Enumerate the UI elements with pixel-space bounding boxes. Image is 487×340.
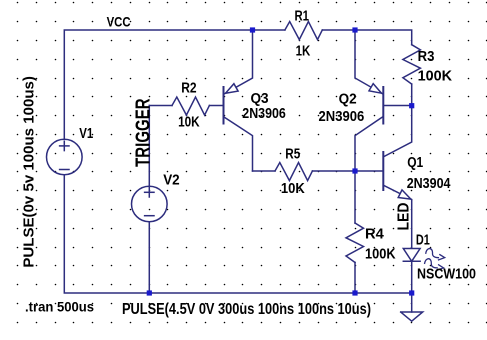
transistor Q2 collector	[355, 117, 383, 171]
wire R2 to Q3 base	[209, 105, 222, 107]
svg-text:VCC: VCC	[107, 14, 131, 30]
transistor Q1 collector	[384, 106, 412, 157]
svg-text:R2: R2	[181, 81, 196, 97]
transistor Q1 emitter	[384, 186, 412, 249]
wire LED to bus junction	[411, 261, 413, 293]
svg-text:D1: D1	[416, 232, 430, 248]
svg-text:R1: R1	[295, 8, 310, 24]
transistor Q2 emitter arrow	[369, 84, 382, 94]
wire V2 bottom to bus	[148, 222, 150, 293]
svg-text:PULSE(4.5V 0V 300us 100ns 100n: PULSE(4.5V 0V 300us 100ns 100ns 10us)	[122, 301, 371, 318]
svg-text:10K: 10K	[281, 181, 305, 197]
ground symbol	[401, 312, 423, 321]
svg-text:Q2: Q2	[339, 92, 357, 108]
svg-text:2N3904: 2N3904	[407, 176, 451, 192]
svg-text:LED: LED	[395, 203, 412, 231]
svg-text:TRIGGER: TRIGGER	[133, 98, 155, 167]
wire trigger to R2	[149, 105, 172, 107]
LED light squiggle upper	[426, 249, 439, 258]
svg-text:R3: R3	[418, 49, 435, 65]
wire R3 bottom to node	[411, 84, 413, 106]
svg-text:R4: R4	[365, 227, 384, 243]
svg-text:Q3: Q3	[251, 91, 269, 107]
junction Q2 base / R3 / Q1 collector	[409, 103, 414, 108]
transistor Q2 body	[382, 87, 384, 124]
wire trigger corner to V2 top	[148, 106, 150, 187]
junction V2 bottom / bus	[147, 290, 152, 295]
LED D1 triangle	[403, 249, 420, 262]
transistor Q3 emitter arrow	[226, 84, 239, 94]
transistor Q3 body	[223, 87, 225, 124]
wire Q3 collector to R5	[253, 170, 276, 172]
resistor R2	[172, 97, 209, 115]
transistor Q2 base wire	[383, 105, 411, 107]
resistor R4 bottom lead	[354, 262, 356, 293]
svg-text:NSCW100: NSCW100	[417, 267, 476, 283]
resistor R5	[275, 163, 312, 181]
junction Q2 emitter / VCC	[352, 27, 357, 32]
wire R5 to node	[312, 170, 355, 172]
svg-text:R5: R5	[285, 147, 300, 163]
transistor Q1 body	[382, 152, 384, 190]
resistor R4	[346, 223, 364, 262]
voltage source V1	[47, 139, 83, 175]
resistor R3	[403, 45, 421, 84]
svg-text:10K: 10K	[178, 115, 200, 131]
wire V1 bottom to ground bus	[64, 175, 411, 293]
transistor Q1 emitter arrow	[398, 190, 411, 199]
wire node to Q1 base	[355, 170, 383, 172]
wire bus junction to ground	[411, 293, 413, 312]
svg-text:2N3906: 2N3906	[319, 109, 365, 125]
junction LED cathode / bus / ground	[409, 290, 414, 295]
LED D1 cathode bar	[403, 260, 420, 262]
voltage source V2	[132, 186, 168, 222]
svg-text:100K: 100K	[418, 68, 453, 84]
wire VCC top rail right segment	[322, 30, 411, 45]
svg-text:1K: 1K	[296, 43, 311, 59]
svg-text:2N3906: 2N3906	[242, 106, 285, 122]
svg-text:V1: V1	[79, 126, 93, 142]
junction Q3 emitter / VCC	[250, 27, 255, 32]
wire VCC top rail left segment	[64, 30, 285, 139]
svg-text:Q1: Q1	[407, 155, 423, 171]
resistor R1	[285, 22, 322, 40]
svg-text:.tran 500us: .tran 500us	[25, 299, 94, 315]
LED light squiggle lower	[425, 259, 438, 268]
svg-text:100K: 100K	[365, 247, 396, 263]
junction R5 / Q2 collector / Q1 base / R4	[352, 168, 357, 173]
svg-text:V2: V2	[163, 173, 180, 189]
resistor R4 top lead	[354, 171, 356, 223]
transistor Q3 emitter	[224, 30, 253, 94]
transistor Q3 collector	[224, 117, 253, 171]
wire Q2 emitter to VCC	[355, 30, 383, 94]
junction R4 bottom / bus	[352, 290, 357, 295]
svg-text:PULSE(0v 5v 100us 100us): PULSE(0v 5v 100us 100us)	[21, 76, 37, 268]
